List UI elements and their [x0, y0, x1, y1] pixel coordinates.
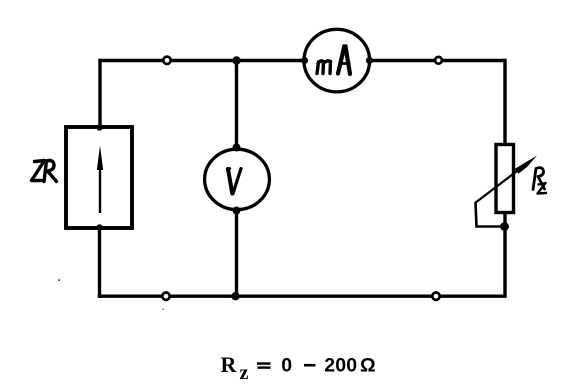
- terminal circle bottom-right: [432, 293, 439, 300]
- svg-text:2: 2: [324, 355, 335, 377]
- wire left vertical: [98, 59, 101, 127]
- junction dot ZR top: [96, 124, 102, 130]
- wire voltmeter branch lower: [235, 210, 238, 296]
- wire top-right horizontal: [369, 59, 507, 62]
- junction dot voltmeter bottom: [233, 207, 241, 215]
- terminal circle top-left: [163, 57, 170, 64]
- rheostat Rz box: [496, 145, 514, 213]
- junction dot wiper: [500, 222, 509, 231]
- svg-text:Ω: Ω: [360, 354, 376, 376]
- arrow inside ZR: [99, 164, 101, 213]
- caption Rz = 0 - 200 Ohm: [221, 352, 376, 384]
- wire right vertical upper: [503, 59, 506, 145]
- ammeter label mA: [317, 47, 350, 75]
- svg-text:0: 0: [335, 355, 346, 377]
- dash: [304, 364, 316, 367]
- wire top-left horizontal: [99, 59, 306, 62]
- wiper tail wire: [476, 203, 505, 227]
- wire left lower vertical: [98, 228, 101, 298]
- junction node bottom (voltmeter tap): [231, 292, 239, 300]
- wire voltmeter branch upper: [235, 61, 238, 149]
- svg-text:z: z: [240, 362, 249, 384]
- junction dot ammeter left: [301, 57, 308, 64]
- voltmeter label V: [227, 168, 241, 193]
- speck artifact left: [58, 279, 60, 281]
- ammeter U1 circle: [304, 29, 370, 92]
- wire bottom horizontal: [98, 295, 507, 298]
- junction dot voltmeter top: [233, 144, 241, 152]
- equals sign: [257, 362, 271, 365]
- rheostat wiper arrow diagonal: [475, 167, 523, 204]
- label ZR: [32, 161, 57, 182]
- junction dot ammeter right: [366, 57, 373, 64]
- svg-text:0: 0: [346, 355, 357, 377]
- wire right vertical lower: [503, 213, 506, 296]
- label Rz: [533, 168, 546, 194]
- svg-text:0: 0: [281, 355, 292, 377]
- junction dot ZR bottom: [96, 224, 102, 230]
- voltmeter U2 circle: [205, 149, 270, 209]
- junction node top (voltmeter tap): [232, 56, 240, 64]
- terminal circle top-right: [435, 57, 442, 64]
- source ZR box: [66, 127, 132, 228]
- speck artifact under bottom wire: [163, 309, 165, 311]
- terminal circle bottom-left: [162, 293, 169, 300]
- svg-text:R: R: [221, 352, 238, 377]
